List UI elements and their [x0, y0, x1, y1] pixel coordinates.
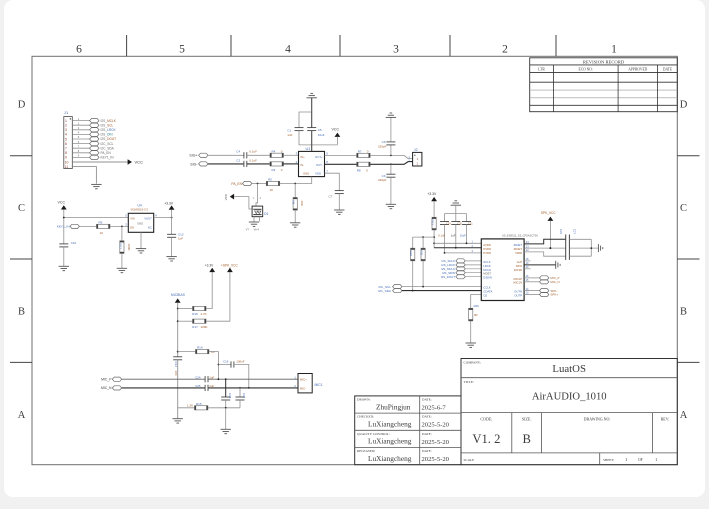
svg-text:C24: C24 — [195, 375, 201, 379]
resistor R4 — [270, 150, 283, 158]
port MIC_N — [101, 386, 122, 390]
zone tick right 2 — [677, 258, 699, 260]
svg-text:VIN: VIN — [130, 216, 135, 220]
ground below D1 — [249, 222, 259, 226]
wire R9 to U4 EN — [110, 225, 128, 227]
wire D1 bottom pins — [254, 217, 260, 222]
junction — [590, 247, 592, 249]
junction — [433, 236, 435, 238]
svg-text:VMID: VMID — [515, 251, 522, 255]
svg-text:2025-5-20: 2025-5-20 — [422, 422, 450, 429]
wire SCL — [402, 286, 481, 288]
svg-text:I2S_DOUT: I2S_DOUT — [441, 275, 455, 279]
wire CE to R26 — [471, 295, 482, 309]
op-amp U1 — [296, 147, 329, 177]
svg-text:1K: 1K — [270, 188, 274, 192]
svg-text:LuatOS: LuatOS — [552, 363, 586, 375]
svg-text:VDD: VDD — [315, 171, 321, 175]
svg-text:3: 3 — [65, 128, 67, 132]
power flag SPK_VCC — [541, 211, 557, 221]
wire to R17 — [178, 320, 193, 322]
svg-text:MIC+: MIC+ — [300, 378, 307, 382]
svg-text:MIC1N: MIC1N — [513, 281, 522, 285]
svg-text:2025-6-7: 2025-6-7 — [422, 405, 447, 412]
svg-text:APPROVED: APPROVED — [628, 68, 647, 72]
junction — [390, 155, 392, 157]
svg-text:R11: R11 — [419, 250, 423, 256]
svg-text:R7: R7 — [358, 149, 362, 153]
zone tick left 1 — [10, 155, 32, 157]
svg-text:C5: C5 — [318, 128, 322, 132]
svg-text:SIG+: SIG+ — [189, 154, 197, 158]
svg-text:SHEET:: SHEET: — [603, 458, 614, 462]
wire R8 to J2 — [370, 162, 413, 165]
svg-text:C18: C18 — [228, 393, 232, 399]
resistor R26 — [469, 304, 480, 321]
resistor R6 — [292, 184, 305, 211]
resistor R12 pulldown — [118, 226, 131, 253]
net flag I2S_SCLK — [442, 259, 482, 263]
svg-text:4.7K: 4.7K — [201, 312, 207, 316]
wire R5 to U1 EN pin — [280, 177, 312, 184]
svg-text:C7: C7 — [329, 195, 333, 199]
pin numbers power — [472, 240, 474, 254]
svg-text:I2S_SCL: I2S_SCL — [101, 123, 114, 127]
junction — [422, 236, 424, 238]
svg-text:TITLE:: TITLE: — [464, 380, 474, 384]
zone tick top 2 — [230, 35, 232, 56]
svg-text:SPK_VCC: SPK_VCC — [541, 211, 557, 215]
net flag I2S_DOUT — [441, 275, 481, 279]
svg-text:IN-: IN- — [300, 163, 304, 167]
port I2C_SDA — [378, 289, 402, 293]
svg-text:SIZE:: SIZE: — [522, 417, 532, 422]
svg-text:CHECKED:: CHECKED: — [357, 415, 374, 419]
regulator U4 — [125, 204, 157, 233]
svg-text:1K: 1K — [100, 231, 104, 235]
zone tick top 1 — [126, 35, 128, 56]
junction — [121, 226, 123, 228]
svg-text:100K: 100K — [127, 244, 131, 251]
ground below C10 — [59, 247, 69, 271]
microphone MIC1 — [294, 374, 322, 393]
wire codec out top — [524, 239, 566, 244]
net flag SPK- — [524, 292, 558, 297]
svg-text:100nF: 100nF — [236, 359, 244, 363]
capacitor C7 — [325, 173, 344, 198]
capacitor C6 — [378, 140, 395, 155]
power flag MICBIAS — [171, 293, 186, 303]
pin stubs right mid — [524, 261, 530, 269]
svg-text:C: C — [18, 203, 25, 214]
port SIG+ — [189, 153, 208, 158]
net flag MIC_P — [524, 275, 559, 280]
wire R3 to U1 pin2 — [283, 163, 298, 165]
svg-text:OUT+: OUT+ — [315, 155, 323, 159]
svg-text:R17: R17 — [192, 325, 198, 329]
wire cap top rail — [445, 214, 467, 222]
wire R11 to SCL — [422, 261, 424, 287]
svg-text:LTR: LTR — [538, 68, 545, 72]
zone tick right 1 — [677, 155, 699, 157]
svg-text:220pF: 220pF — [378, 144, 387, 148]
value labels — [438, 233, 466, 237]
wire MIC_P to C24 — [122, 378, 205, 380]
zone tick top 3 — [339, 35, 341, 56]
wire R13 to AVDD rail — [433, 230, 435, 248]
junction — [257, 183, 259, 185]
junction — [177, 320, 179, 322]
jack J2 — [408, 148, 422, 166]
svg-text:MIC1: MIC1 — [315, 383, 323, 387]
resistor R7 — [357, 149, 370, 157]
svg-text:9: 9 — [65, 156, 67, 160]
diode D1 — [252, 206, 269, 217]
ground right VMID — [556, 261, 560, 269]
svg-text:VCC: VCC — [224, 193, 228, 200]
svg-text:I2C_SCL: I2C_SCL — [101, 142, 114, 146]
svg-text:VCC: VCC — [58, 201, 66, 205]
junction — [433, 242, 435, 244]
wire J1 pin10 to VCC — [72, 161, 127, 163]
resistor R3 — [270, 162, 283, 172]
junction — [248, 387, 250, 389]
svg-text:I2S_DOUT: I2S_DOUT — [101, 137, 117, 141]
wire PVDD rail — [444, 252, 481, 254]
wire codec out mid — [524, 247, 566, 249]
net flag I2S_MCLK — [441, 267, 481, 271]
wire R17 to SPK_VCC — [206, 272, 230, 321]
svg-text:C10: C10 — [71, 241, 77, 245]
svg-text:+3.3V: +3.3V — [427, 192, 437, 196]
resistor R10 pull-up — [409, 237, 415, 261]
wire SIG+ to C4 — [208, 154, 244, 156]
wire MIC_N to C25 — [122, 387, 205, 389]
wire SDA — [402, 290, 481, 292]
svg-text:SIG-: SIG- — [190, 162, 198, 166]
svg-text:C25: C25 — [195, 384, 201, 388]
svg-text:C16: C16 — [223, 359, 229, 363]
svg-text:DATE:: DATE: — [422, 415, 432, 419]
svg-text:OUT-: OUT- — [316, 163, 323, 167]
power flag SPK_VCC (R17) — [221, 263, 238, 272]
power flag VCC (LDO) — [58, 201, 67, 210]
capacitor C9 — [378, 164, 395, 182]
wire VCC rail to U4 — [64, 210, 129, 244]
wire R16 to +3.3V — [206, 272, 212, 308]
svg-text:COMPANY:: COMPANY: — [464, 361, 481, 365]
junction — [218, 364, 220, 366]
svg-text:1.2K: 1.2K — [187, 404, 193, 408]
zone letters left — [18, 100, 26, 422]
svg-text:KEY1_IN: KEY1_IN — [101, 156, 115, 160]
svg-text:MIC_N: MIC_N — [101, 386, 112, 390]
wire R4 to U1 pin3 — [283, 154, 298, 156]
wire DVDD rail — [434, 247, 481, 249]
junction — [455, 247, 457, 249]
svg-text:10uF: 10uF — [318, 133, 325, 137]
junction — [390, 163, 392, 165]
title block — [355, 359, 678, 465]
svg-text:B: B — [522, 432, 530, 446]
svg-text:SCALE: SCALE — [464, 458, 475, 462]
wire C4 to R4 — [247, 154, 270, 156]
capacitor C26/C27 plates — [559, 229, 577, 260]
port MIC_P — [101, 377, 122, 381]
svg-text:C27: C27 — [572, 229, 576, 235]
svg-text:5: 5 — [179, 44, 185, 56]
wire R10 to SDA — [412, 261, 414, 291]
svg-text:3: 3 — [393, 44, 399, 56]
wire SPK_VCC down — [549, 221, 551, 248]
junction — [422, 286, 424, 288]
ground below C7 — [334, 194, 344, 215]
svg-text:R5: R5 — [268, 178, 272, 182]
wire VCC to D1 — [234, 197, 252, 209]
svg-text:C26: C26 — [559, 229, 563, 235]
svg-text:11: 11 — [65, 165, 69, 169]
zone numbers top — [76, 44, 617, 56]
svg-text:U1: U1 — [306, 147, 311, 151]
capacitor C21 — [462, 222, 473, 244]
net flag I2S_SDIN — [442, 271, 481, 275]
svg-text:0.1uF: 0.1uF — [438, 233, 445, 237]
capacitor C17 — [236, 388, 247, 400]
wire PA_EN junction to D1 — [256, 184, 258, 207]
wire to R14 — [178, 351, 196, 353]
svg-text:220pF: 220pF — [378, 178, 387, 182]
svg-text:2025-5-20: 2025-5-20 — [422, 439, 450, 446]
wire C24 to MIC1 — [208, 378, 298, 380]
svg-text:6: 6 — [65, 142, 67, 146]
svg-text:DATE:: DATE: — [422, 432, 432, 436]
svg-text:0R: 0R — [474, 313, 478, 317]
capacitor C18 — [221, 379, 232, 400]
net flag MIC_N — [524, 279, 560, 284]
svg-text:R8: R8 — [357, 169, 361, 173]
svg-text:100K: 100K — [201, 325, 208, 329]
wire U4 VOUT to +3.3V — [154, 217, 172, 219]
svg-text:KEY1_IN: KEY1_IN — [57, 225, 70, 229]
svg-text:MICBIAS: MICBIAS — [171, 293, 186, 297]
power flag VCC (J1) — [128, 159, 132, 165]
junction — [466, 242, 468, 244]
capacitor C19 — [440, 222, 451, 253]
ground below R12 — [117, 253, 127, 272]
ground above U1 — [307, 93, 317, 112]
svg-text:IN+: IN+ — [300, 155, 305, 159]
capacitor C10 — [59, 241, 76, 247]
ground right — [598, 244, 602, 252]
svg-text:B: B — [680, 307, 687, 318]
wire C16 down to MIC_N line — [234, 365, 249, 388]
zone tick top 4 — [449, 35, 451, 56]
junction — [294, 183, 296, 185]
wire AVDD rail — [434, 242, 481, 244]
wire cap top rail — [299, 112, 312, 128]
speaker loop wires — [569, 239, 598, 256]
svg-text:GND: GND — [137, 221, 143, 225]
svg-text:OUTP: OUTP — [514, 294, 522, 298]
svg-text:DRAWING NO:: DRAWING NO: — [584, 417, 611, 422]
svg-text:U5_ES8311_S3_CP5A3C7S6: U5_ES8311_S3_CP5A3C7S6 — [502, 234, 538, 238]
wire codec out bottom — [524, 252, 566, 256]
svg-text:LuXiangcheng: LuXiangcheng — [368, 454, 412, 463]
zone tick top 5 — [555, 35, 557, 56]
ground below C9 — [386, 177, 396, 209]
junction — [549, 247, 551, 249]
junction — [63, 217, 65, 219]
zone letters right — [680, 100, 688, 422]
wire MICBIAS lower — [177, 360, 179, 419]
svg-text:V1. 2: V1. 2 — [472, 432, 500, 446]
wire U1 pin5 to R7 — [325, 154, 357, 156]
svg-text:QUALITY CONTROL:: QUALITY CONTROL: — [357, 432, 390, 436]
ground (codec caps) — [451, 201, 461, 214]
resistor R17 — [192, 319, 207, 329]
port I2C_SCL — [378, 285, 402, 289]
svg-text:8: 8 — [65, 151, 67, 155]
svg-text:CE: CE — [483, 294, 487, 298]
ground below R26 — [466, 321, 476, 348]
power flag +3.3V (codec) — [427, 192, 437, 201]
svg-text:4: 4 — [65, 133, 67, 137]
svg-text:I2C_SDA: I2C_SDA — [101, 146, 115, 150]
svg-text:5: 5 — [65, 137, 67, 141]
ground above C6 — [386, 113, 396, 142]
svg-text:NC: NC — [148, 226, 152, 230]
svg-text:2025-5-20: 2025-5-20 — [422, 456, 450, 463]
svg-text:J2: J2 — [414, 148, 418, 152]
svg-text:C: C — [680, 203, 687, 214]
svg-text:MIC_P: MIC_P — [101, 378, 112, 382]
wire PA_EN to R5 — [252, 183, 266, 185]
ground below MICBIAS rail — [173, 419, 183, 423]
wire pull-up rail — [413, 236, 434, 238]
wire caps bottoms — [226, 400, 240, 408]
junction — [171, 217, 173, 219]
wire to C16 — [218, 364, 231, 366]
resistor R14 — [196, 346, 215, 354]
svg-text:LuXiangcheng: LuXiangcheng — [368, 420, 412, 429]
capacitor C16 — [223, 359, 245, 367]
svg-text:B: B — [18, 307, 25, 318]
wire R7 to J2 — [370, 155, 413, 158]
svg-text:D1: D1 — [264, 212, 268, 216]
svg-text:R26: R26 — [474, 304, 480, 308]
svg-text:R9: R9 — [99, 221, 103, 225]
capacitor C14 (series on MICBIAS) — [173, 357, 182, 376]
svg-text:PA_EN: PA_EN — [101, 151, 112, 155]
wire R15 to cap rail — [208, 407, 240, 409]
svg-text:VOUT: VOUT — [144, 216, 152, 220]
resistor R15 — [187, 402, 208, 410]
wire VMID bypass — [524, 264, 556, 266]
svg-text:DRAWN:: DRAWN: — [357, 398, 371, 402]
capacitor C24 — [195, 375, 214, 382]
capacitor C4 — [236, 150, 257, 159]
svg-text:7: 7 — [65, 147, 67, 151]
wire C25 to MIC1 — [208, 387, 298, 389]
power flag +3.3V (LDO out) — [164, 201, 174, 217]
svg-text:R13: R13 — [430, 220, 434, 226]
junction — [412, 290, 414, 292]
capacitor C1 — [287, 128, 303, 137]
frame border — [32, 56, 677, 464]
zone tick right 3 — [677, 361, 699, 363]
svg-text:MIC_N: MIC_N — [550, 280, 559, 284]
svg-text:OF: OF — [638, 458, 643, 462]
net flag I2S_LRCK — [441, 263, 481, 267]
pin marks D1 — [253, 197, 262, 200]
wire R14 down to MIC_P line — [209, 352, 219, 380]
svg-text:0.1uF: 0.1uF — [249, 158, 257, 162]
wire SIG- to C2 — [208, 163, 244, 165]
svg-text:ECO NO:: ECO NO: — [579, 68, 593, 72]
revision record table — [530, 58, 678, 112]
port KEY1_IN — [57, 224, 80, 228]
svg-text:R6: R6 — [292, 201, 296, 205]
svg-text:GND: GND — [303, 171, 309, 175]
capacitor C12 — [167, 218, 184, 241]
svg-text:EN: EN — [130, 226, 134, 230]
svg-text:I2S_MCLK: I2S_MCLK — [101, 119, 117, 123]
junction — [177, 308, 179, 310]
svg-text:RELEASED:: RELEASED: — [357, 449, 375, 453]
svg-text:DATE:: DATE: — [422, 398, 432, 402]
svg-text:D: D — [680, 100, 688, 111]
capacitor C2 — [236, 158, 257, 167]
pin numbers right top — [526, 240, 529, 252]
svg-text:2: 2 — [65, 124, 67, 128]
capacitor C25 — [195, 384, 214, 391]
svg-text:1uF: 1uF — [451, 233, 456, 237]
zone tick left 3 — [10, 361, 32, 363]
svg-text:PVDD: PVDD — [483, 251, 491, 255]
svg-text:C20: C20 — [457, 223, 462, 226]
wire C2 to R3 — [247, 163, 270, 165]
svg-text:A: A — [18, 410, 26, 421]
svg-text:+3.3V: +3.3V — [205, 263, 214, 267]
resistor R13 (series) — [430, 201, 436, 230]
zone tick left 2 — [10, 258, 32, 260]
wire MICBIAS to R15 — [178, 407, 195, 409]
svg-text:R12: R12 — [118, 244, 122, 250]
svg-text:C4: C4 — [236, 150, 240, 154]
capacitor C5 — [307, 128, 325, 137]
svg-text:10uF: 10uF — [460, 233, 466, 237]
svg-text:10K: 10K — [300, 201, 304, 206]
svg-text:DATE: DATE — [663, 68, 673, 72]
net flag SPK+ — [524, 288, 557, 293]
svg-text:CODE:: CODE: — [480, 417, 492, 422]
svg-text:1: 1 — [611, 44, 617, 56]
codec U5 — [481, 234, 538, 301]
svg-text:ZhuPingjun: ZhuPingjun — [376, 402, 411, 411]
ground below C12 — [166, 237, 176, 261]
junction — [225, 407, 227, 409]
svg-text:VA-4: VA-4 — [254, 229, 260, 232]
svg-text:REVISION RECORD: REVISION RECORD — [583, 59, 625, 64]
wire cap bottom rail to U1 — [299, 131, 337, 145]
svg-text:10: 10 — [65, 160, 69, 164]
svg-text:4: 4 — [285, 44, 291, 56]
svg-text:R4: R4 — [272, 150, 276, 154]
svg-text:R15: R15 — [196, 402, 202, 406]
svg-text:0.1uF: 0.1uF — [249, 150, 257, 154]
svg-text:I2C_SDA: I2C_SDA — [378, 289, 392, 293]
wire J1 pin11 to ground — [72, 167, 96, 184]
